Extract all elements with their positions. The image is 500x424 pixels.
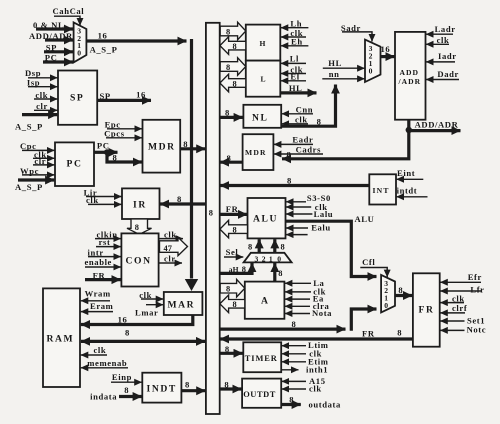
svg-text:16: 16	[98, 31, 108, 41]
bus arrow bus to A 8	[220, 279, 245, 297]
input Sel	[224, 247, 243, 257]
input Eram	[81, 301, 114, 312]
input Ealu	[286, 223, 331, 233]
input Notc	[440, 325, 486, 335]
block L	[246, 61, 280, 97]
mux ALU input	[244, 253, 292, 264]
wire SP output 16	[97, 90, 151, 102]
input enable	[85, 257, 121, 267]
svg-text:clk: clk	[437, 35, 450, 45]
input Ea	[285, 294, 324, 304]
wire FR output to bus	[220, 327, 413, 339]
svg-text:Cnn: Cnn	[296, 104, 314, 114]
wire A_S_P vertical to MAR	[185, 39, 198, 291]
block INDT	[142, 373, 181, 403]
input Ltim	[282, 340, 329, 350]
block MDR right	[243, 134, 274, 170]
input HL to Sadr mux	[323, 58, 365, 68]
wire Cfl mux to FR 8	[395, 285, 412, 296]
wire bus to mux aH 8	[220, 263, 252, 274]
block TIMER	[243, 342, 281, 372]
wire INT to bus 8	[220, 175, 369, 185]
svg-text:INDT: INDT	[147, 384, 177, 395]
input El	[281, 72, 306, 82]
input Ll	[281, 53, 306, 63]
block OUTDT	[242, 379, 281, 408]
junction PC node	[104, 149, 110, 155]
svg-text:PC: PC	[67, 159, 83, 170]
input clra	[285, 301, 330, 311]
svg-text:Iadr: Iadr	[438, 51, 457, 61]
input Etim	[282, 356, 329, 366]
block ADD/ADR	[395, 32, 426, 120]
block RAM	[43, 288, 80, 387]
svg-text:intdt: intdt	[397, 186, 418, 196]
svg-text:8: 8	[135, 223, 139, 232]
svg-text:Ladr: Ladr	[435, 24, 456, 34]
svg-text:indata: indata	[90, 392, 117, 402]
wire PC to MDR 8	[107, 152, 142, 162]
input SP	[44, 43, 73, 53]
input Einp	[111, 372, 142, 382]
svg-text:L: L	[261, 75, 266, 84]
svg-text:ADD: ADD	[400, 68, 419, 77]
wire ADD/ADR label arrow	[409, 119, 461, 130]
input La	[285, 278, 325, 288]
svg-text:1: 1	[269, 254, 273, 263]
wire mux to ALU right 8	[275, 239, 285, 253]
input Isp	[27, 78, 58, 88]
block NL	[243, 105, 281, 128]
svg-text:8: 8	[397, 327, 402, 337]
block MDR left	[143, 120, 181, 173]
svg-text:A_S_P: A_S_P	[15, 182, 43, 192]
block A	[245, 282, 285, 319]
wire Cfl to mux	[360, 268, 387, 278]
svg-text:Eh: Eh	[291, 37, 303, 47]
block SP	[58, 71, 97, 125]
svg-text:CON: CON	[126, 256, 152, 267]
input S3-S0	[286, 193, 331, 203]
input clr PC	[33, 156, 55, 166]
main bus	[206, 23, 220, 414]
wire NL nn to mux	[281, 85, 335, 127]
mux Cfl	[381, 275, 395, 313]
input Ladr	[426, 24, 456, 34]
svg-text:8: 8	[233, 79, 237, 88]
bus arrow IR to CON 8	[127, 219, 152, 234]
input Lh	[281, 18, 309, 28]
input clk ADD/ADR	[426, 35, 449, 45]
svg-text:TIMER: TIMER	[245, 354, 278, 363]
svg-text:clk: clk	[309, 384, 322, 394]
svg-text:8: 8	[226, 27, 230, 36]
svg-text:SP: SP	[70, 93, 84, 104]
block CON	[121, 233, 158, 286]
input clk TIMER	[282, 348, 322, 358]
input clk NL	[282, 114, 308, 124]
label Sadr	[341, 23, 361, 33]
svg-text:FR: FR	[226, 204, 239, 214]
input clk A	[285, 287, 326, 297]
input Cadrs	[274, 145, 323, 155]
input Eadr	[274, 134, 314, 144]
svg-text:Einp: Einp	[112, 372, 132, 382]
input Ealu line 2	[286, 234, 308, 236]
svg-text:Lmar: Lmar	[135, 307, 158, 317]
svg-text:Ealu: Ealu	[311, 223, 331, 233]
wire MAR to RAM 16	[81, 314, 193, 324]
svg-text:0: 0	[277, 254, 281, 263]
wire RAM data bus 8	[81, 327, 205, 341]
wire mux to ALU left 8	[248, 239, 259, 253]
svg-text:Cadrs: Cadrs	[296, 145, 321, 155]
svg-text:8: 8	[278, 269, 282, 278]
svg-text:inth1: inth1	[306, 364, 328, 374]
svg-text:/ADR: /ADR	[398, 77, 422, 86]
svg-text:Sel: Sel	[226, 247, 239, 257]
svg-text:8: 8	[233, 300, 237, 309]
svg-text:Cpcs: Cpcs	[104, 128, 125, 138]
svg-text:clrf: clrf	[452, 303, 467, 313]
input clkin	[95, 229, 121, 239]
svg-text:RAM: RAM	[47, 334, 75, 345]
svg-text:Notc: Notc	[467, 325, 487, 335]
wire outdata 8	[281, 394, 341, 409]
input rst	[96, 237, 121, 247]
svg-text:Eadr: Eadr	[292, 134, 313, 144]
svg-text:rst: rst	[99, 237, 111, 247]
junction ADD/ADR node	[406, 127, 412, 133]
svg-text:outdata: outdata	[309, 400, 341, 410]
input Efr	[440, 272, 482, 282]
bus arrow bus to L 8	[220, 58, 246, 76]
svg-text:Efr: Efr	[468, 272, 482, 282]
wire PC output	[94, 141, 118, 153]
input clk FR	[440, 293, 465, 303]
svg-text:enable: enable	[85, 257, 112, 267]
svg-text:0: 0	[369, 67, 373, 76]
svg-text:Eint: Eint	[397, 168, 415, 178]
input clk MAR	[139, 290, 163, 300]
svg-text:A: A	[261, 296, 270, 307]
bus arrow L to bus 8	[220, 74, 246, 92]
svg-text:8: 8	[226, 285, 230, 294]
svg-text:NL: NL	[252, 113, 269, 124]
input PC	[43, 53, 73, 63]
svg-text:8: 8	[287, 175, 292, 185]
svg-text:47: 47	[164, 244, 172, 253]
wire MDR to bus 8	[180, 139, 205, 149]
input Cpcs	[104, 128, 142, 138]
input A_S_P to SP	[15, 115, 57, 132]
input Epc	[105, 120, 142, 130]
input ADD/ADR	[29, 31, 73, 41]
wire CahCal to mux	[54, 16, 80, 25]
label CahCal	[53, 6, 85, 16]
wire bus to OUTDT 8	[220, 379, 242, 389]
svg-text:FR: FR	[419, 305, 435, 316]
input Cnn	[282, 104, 314, 114]
svg-text:0: 0	[384, 301, 388, 310]
block ALU	[248, 198, 286, 238]
input Set1	[440, 315, 485, 325]
svg-text:OUTDT: OUTDT	[243, 390, 276, 399]
input clk OUTDT	[282, 384, 322, 394]
svg-text:8: 8	[185, 379, 190, 389]
block H	[246, 25, 280, 61]
block FR	[413, 273, 440, 346]
input nn to Sadr mux	[322, 69, 364, 79]
svg-text:0: 0	[77, 49, 81, 58]
svg-text:8: 8	[233, 225, 237, 234]
svg-text:8: 8	[289, 394, 294, 404]
svg-text:Eram: Eram	[90, 301, 114, 311]
input Lir	[84, 187, 122, 197]
input clk L	[281, 64, 306, 74]
input Wram	[81, 288, 111, 300]
input 0 & NL	[33, 20, 73, 30]
svg-text:8: 8	[281, 242, 285, 251]
svg-text:8: 8	[124, 385, 129, 395]
wire ADD/ADR to MDR 8	[282, 130, 409, 160]
block IR	[122, 188, 160, 219]
input clk PC	[33, 149, 55, 159]
svg-text:MDR: MDR	[148, 142, 176, 153]
svg-text:IR: IR	[133, 200, 147, 211]
bus arrow A to bus 8	[220, 295, 245, 313]
svg-text:H: H	[260, 39, 266, 48]
input Eint	[396, 168, 423, 179]
input Nota	[285, 308, 332, 318]
wire bus to IR 8	[160, 194, 206, 204]
input intr	[88, 247, 121, 257]
input A_S_P to PC	[15, 180, 54, 192]
wire bus to NL 8	[220, 107, 243, 117]
wire FR to ALU	[220, 204, 248, 215]
wire INDT to bus 8	[181, 379, 205, 390]
svg-text:8: 8	[125, 327, 130, 337]
input clk IR	[86, 195, 122, 205]
mux Sadr	[365, 40, 381, 82]
svg-text:Lalu: Lalu	[314, 209, 334, 219]
svg-text:MAR: MAR	[168, 300, 196, 311]
wire A to mux 8	[275, 263, 283, 282]
input Cpc	[20, 141, 55, 151]
svg-text:MDR: MDR	[245, 148, 267, 157]
svg-text:16: 16	[118, 314, 128, 324]
svg-text:clk: clk	[94, 345, 107, 355]
input clk ALU	[286, 202, 328, 212]
input intdt	[396, 186, 427, 197]
bus arrow bus to H 8	[220, 22, 246, 40]
mux A_S_P	[74, 22, 87, 62]
svg-text:ALU: ALU	[253, 214, 278, 225]
input Lalu	[286, 209, 333, 219]
svg-text:3: 3	[255, 254, 259, 263]
output inth1	[281, 364, 328, 374]
input clk RAM	[81, 345, 107, 355]
svg-text:memenab: memenab	[87, 358, 127, 368]
svg-text:intr: intr	[88, 247, 104, 257]
svg-text:CahCal: CahCal	[53, 6, 85, 16]
block PC	[55, 142, 94, 186]
svg-text:Nota: Nota	[312, 308, 332, 318]
input memenab	[81, 358, 128, 368]
wire A_S_P 16-bit output	[86, 31, 186, 55]
svg-text:8: 8	[398, 285, 403, 295]
output clk CON	[159, 229, 183, 239]
bus arrow ALU to bus 8	[220, 220, 248, 238]
wire ALU output to Cfl mux	[286, 214, 377, 277]
svg-text:A_S_P: A_S_P	[90, 45, 118, 55]
svg-text:clk: clk	[295, 114, 308, 124]
output clr CON	[159, 253, 182, 263]
input Lmar	[135, 305, 163, 318]
input clrf	[440, 303, 467, 313]
wire ADD/ADR output down	[407, 120, 410, 130]
svg-text:clk: clk	[164, 229, 177, 239]
svg-text:clr: clr	[164, 253, 176, 263]
svg-text:INT: INT	[373, 186, 390, 195]
input clr SP	[34, 101, 58, 111]
svg-text:Wram: Wram	[85, 288, 111, 298]
svg-text:8: 8	[209, 209, 213, 218]
svg-text:Cfl: Cfl	[362, 257, 375, 267]
input Wpc	[20, 166, 55, 176]
svg-text:ALU: ALU	[355, 214, 375, 224]
input indata 8	[90, 385, 142, 401]
input Eh	[281, 37, 309, 47]
svg-text:HL: HL	[328, 58, 342, 68]
input Lfr	[440, 284, 484, 294]
input FR to CON	[85, 270, 121, 280]
svg-text:Lh: Lh	[290, 18, 302, 28]
svg-text:Dadr: Dadr	[437, 69, 459, 79]
svg-text:16: 16	[381, 44, 391, 54]
block INT	[369, 174, 396, 204]
wire HL output	[280, 83, 316, 93]
svg-text:2: 2	[262, 254, 266, 263]
input clk SP	[34, 90, 58, 100]
wire MDR right to bus 8	[220, 153, 243, 163]
svg-text:Dsp: Dsp	[25, 68, 41, 78]
svg-text:FR: FR	[362, 328, 375, 338]
svg-text:nn: nn	[329, 69, 340, 79]
svg-text:Lfr: Lfr	[470, 284, 484, 294]
svg-text:ADD/ADR: ADD/ADR	[415, 119, 459, 129]
svg-text:8: 8	[233, 42, 237, 51]
wire Sadr to mux	[342, 32, 372, 42]
svg-text:A_S_P: A_S_P	[15, 122, 43, 132]
input Dadr	[426, 69, 459, 80]
label Cfl	[362, 257, 375, 267]
svg-text:PC: PC	[97, 141, 110, 151]
bus arrow CON 47 control	[160, 237, 188, 255]
input Dsp	[25, 68, 58, 78]
input Iadr	[426, 51, 457, 62]
bus arrow H to bus 8	[220, 37, 246, 55]
svg-text:Ll: Ll	[290, 53, 299, 63]
input clk H	[281, 28, 306, 38]
block MAR	[164, 292, 203, 315]
svg-text:8: 8	[248, 242, 252, 251]
wire bus to Cfl mux 8	[220, 309, 377, 331]
input A15	[282, 376, 326, 386]
wire bus to TIMER 8	[220, 344, 243, 354]
wire Sadr mux to ADD/ADR 16	[381, 44, 395, 57]
svg-text:16: 16	[136, 90, 146, 100]
svg-text:8: 8	[226, 63, 230, 72]
